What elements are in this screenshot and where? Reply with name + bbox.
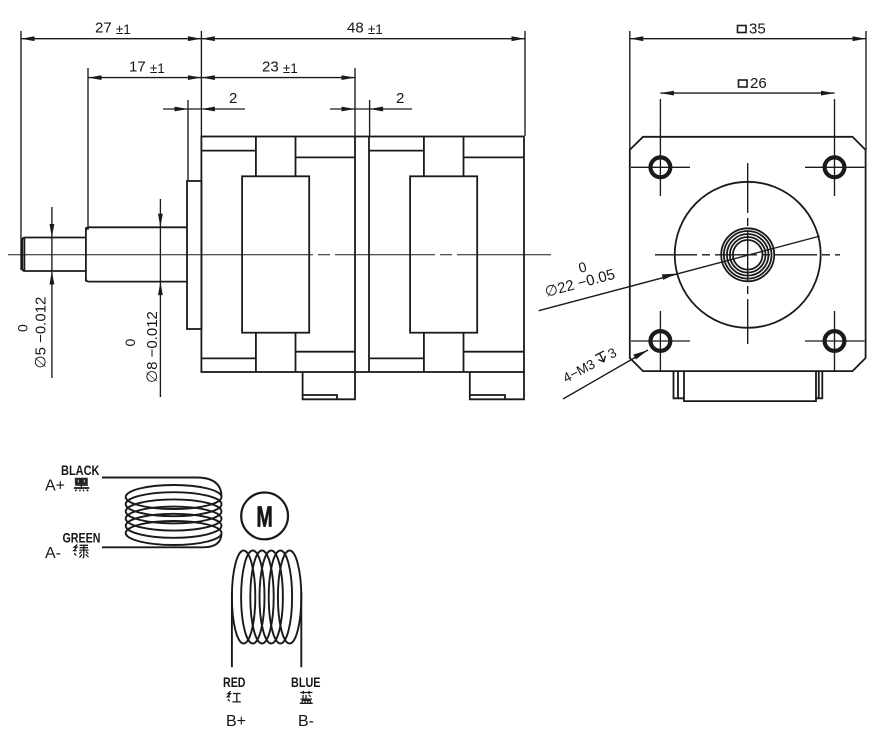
coil phase B xyxy=(232,551,301,644)
mounting hole top-left xyxy=(631,157,690,177)
glyph 黑 xyxy=(74,478,89,491)
svg-text:∅5 −0.012: ∅5 −0.012 xyxy=(33,297,50,369)
pilot circle Ø22 xyxy=(675,182,821,328)
svg-text:GREEN: GREEN xyxy=(63,531,101,546)
stack 1 end cap lines xyxy=(201,151,355,359)
svg-text:0: 0 xyxy=(15,324,31,332)
dimension 17±1 xyxy=(88,59,201,231)
motor symbol M xyxy=(241,493,288,540)
dimension 23±1 xyxy=(201,59,355,138)
dimension 48±1 xyxy=(201,20,525,138)
glyph 蓝 xyxy=(300,691,313,704)
svg-text:2: 2 xyxy=(396,90,404,107)
wire A+ xyxy=(102,478,222,498)
svg-text:3: 3 xyxy=(605,345,619,362)
svg-text:48 ±1: 48 ±1 xyxy=(347,20,383,38)
connector tab 2 xyxy=(470,372,524,399)
wire B- xyxy=(300,592,302,667)
shaft Ø8 xyxy=(86,227,187,281)
label GREEN / A- 绿 xyxy=(45,531,101,563)
svg-text:RED: RED xyxy=(223,675,246,690)
svg-text:BLUE: BLUE xyxy=(291,675,321,690)
svg-text:35: 35 xyxy=(749,21,766,38)
shaft Ø5 xyxy=(22,238,86,272)
center lines (front view) xyxy=(655,163,840,344)
svg-text:M: M xyxy=(256,502,272,534)
center line (shaft axis) xyxy=(8,254,551,256)
wire B+ xyxy=(231,592,233,667)
label BLUE / 蓝 / B- xyxy=(291,675,321,730)
svg-text:A+: A+ xyxy=(45,478,65,495)
motor face plate (square with chamfers) xyxy=(630,137,866,371)
dimension 27±1 xyxy=(21,20,201,271)
mounting hole bottom-right xyxy=(805,311,865,371)
leader 4-M3 depth 3 xyxy=(560,345,648,399)
svg-text:0: 0 xyxy=(577,258,589,276)
connector tab 1 xyxy=(303,372,355,399)
svg-text:BLACK: BLACK xyxy=(61,463,100,478)
stack divider plates xyxy=(355,137,369,373)
svg-text:26: 26 xyxy=(750,75,767,92)
dimension □26 xyxy=(660,75,834,196)
stack 2 stator pole xyxy=(424,137,464,373)
svg-text:23 ±1: 23 ±1 xyxy=(262,59,298,77)
label RED / 红 / B+ xyxy=(223,675,246,730)
svg-text:∅8 −0.012: ∅8 −0.012 xyxy=(144,311,161,383)
motor body outline xyxy=(201,137,524,373)
front boss (2mm pilot) xyxy=(187,181,201,329)
dimension 2 (front boss) xyxy=(163,90,245,181)
svg-text:B+: B+ xyxy=(226,713,246,730)
stack 1 stator pole xyxy=(256,137,296,373)
svg-text:2: 2 xyxy=(229,90,237,107)
connector (front view) xyxy=(674,371,823,401)
svg-text:A-: A- xyxy=(45,545,61,562)
dimension 2 (stack gap) xyxy=(330,90,412,137)
coil phase A xyxy=(126,485,222,545)
label BLACK / A+ 黑 xyxy=(45,463,100,495)
dimension □35 xyxy=(630,21,866,151)
mounting hole bottom-left xyxy=(631,311,690,371)
stack 2 rotor xyxy=(410,176,477,332)
svg-text:0: 0 xyxy=(122,339,138,347)
wire A- xyxy=(102,533,222,547)
mounting hole top-right xyxy=(805,157,865,177)
svg-text:B-: B- xyxy=(298,713,314,730)
dimension Ø5 xyxy=(15,207,55,378)
glyph 红 xyxy=(227,691,240,702)
dimension Ø8 xyxy=(122,199,163,397)
svg-text:17 ±1: 17 ±1 xyxy=(129,59,165,77)
svg-text:4−M3: 4−M3 xyxy=(560,356,597,385)
svg-text:27 ±1: 27 ±1 xyxy=(95,20,131,38)
stack 2 end cap lines xyxy=(369,151,524,359)
leader Ø22 xyxy=(539,236,820,311)
glyph 绿 xyxy=(74,545,89,558)
shaft rings xyxy=(721,228,774,281)
stack 1 rotor xyxy=(242,176,309,332)
